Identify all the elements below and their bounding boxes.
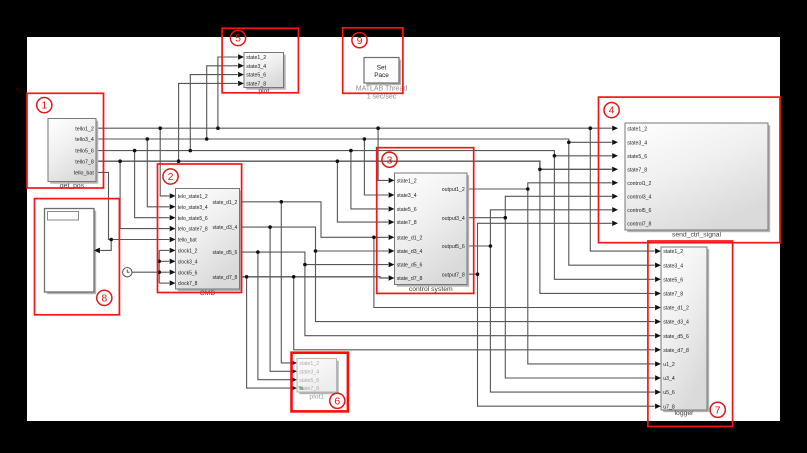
- wire clock to CMD clock3_4: [159, 259, 175, 264]
- wire state_d3_4 to plot1: [270, 227, 297, 374]
- wire output5_6 to send_ctrl: [467, 207, 618, 246]
- svg-text:state_d1_2: state_d1_2: [213, 200, 238, 206]
- wire tello7_8 to control in4: [337, 161, 394, 225]
- svg-text:tello_bat: tello_bat: [74, 171, 95, 177]
- wire tello3_4 main: [96, 139, 618, 145]
- wire clock feed: [132, 271, 159, 273]
- svg-text:state1_2: state1_2: [299, 361, 319, 367]
- junction state_d1_2/logger: [372, 236, 376, 240]
- junction state_d5_6/logger: [303, 263, 307, 267]
- svg-text:state3_4: state3_4: [299, 369, 319, 375]
- wire state_d1_2 to plot1: [281, 202, 297, 366]
- annotation box 5: [222, 28, 298, 93]
- wire state1_2 to logger: [590, 128, 661, 254]
- annotation circle 2: [163, 169, 178, 184]
- svg-text:state3_4: state3_4: [663, 263, 683, 269]
- wire clock to CMD clock1_2: [159, 248, 175, 253]
- svg-text:CMD: CMD: [200, 290, 216, 297]
- annotation box 3: [377, 148, 474, 294]
- junction tello7_8/ctrl: [336, 159, 340, 163]
- junction state_d1_2/plot1: [280, 200, 284, 204]
- junction tello5_6/ctrl: [349, 149, 353, 153]
- svg-text:MATLAB Thread: MATLAB Thread: [356, 86, 408, 93]
- wire u1_2 to logger: [528, 189, 661, 367]
- svg-text:state_d5_6: state_d5_6: [663, 334, 689, 340]
- annotation box 9: [343, 28, 403, 94]
- annotation circle 3: [382, 152, 397, 167]
- wire tello_bat branch to scope: [94, 240, 111, 254]
- junction tello3_4/ctrl: [363, 137, 367, 141]
- svg-text:state7_8: state7_8: [397, 220, 417, 226]
- junction clock/3_4: [157, 260, 161, 264]
- svg-text:8: 8: [101, 293, 107, 305]
- wire tello5_6 main: [96, 151, 618, 159]
- svg-text:state_d7_8: state_d7_8: [397, 276, 423, 282]
- wire clock to CMD clock5_6: [159, 270, 175, 275]
- wire tello3_4 to CMD in2: [147, 139, 175, 210]
- annotation circle 8: [97, 290, 112, 305]
- wire tello1_2 to control in1: [378, 128, 394, 183]
- svg-text:plot1: plot1: [309, 394, 324, 401]
- wire tello5_6 to control in3: [351, 151, 395, 212]
- annotation box 4: [599, 97, 781, 243]
- svg-text:u1_2: u1_2: [663, 362, 675, 368]
- svg-text:state_d7_8: state_d7_8: [663, 348, 689, 354]
- block control_system: [395, 173, 470, 293]
- wire tello5_6 to plot in3: [190, 72, 244, 151]
- svg-text:5: 5: [235, 33, 241, 45]
- svg-text:state7_8: state7_8: [627, 167, 647, 173]
- junction tello5_6/plot: [189, 149, 193, 153]
- junction state_d5_6/plot1: [256, 250, 260, 254]
- wire state_d3_4 to control: [240, 227, 395, 254]
- svg-text:state7_8: state7_8: [663, 292, 683, 298]
- svg-text:state1_2: state1_2: [397, 179, 417, 185]
- junction tello1_2/CMD: [158, 126, 162, 130]
- junction output5_6/logger: [489, 244, 493, 248]
- wire tello3_4 to control in2: [364, 139, 394, 198]
- svg-text:telo_state5_6: telo_state5_6: [178, 216, 208, 222]
- svg-text:state_d7_8: state_d7_8: [213, 275, 238, 281]
- svg-text:1: 1: [41, 100, 47, 112]
- wire state_d3_4 to logger: [316, 251, 661, 324]
- svg-text:state_d3_4: state_d3_4: [397, 249, 423, 255]
- block Set_Pace: [356, 58, 408, 101]
- wire state_d5_6 to control: [240, 252, 395, 267]
- svg-text:tello3_4: tello3_4: [75, 137, 94, 143]
- wire state_d1_2 to control: [240, 202, 395, 240]
- svg-text:telo_state1_2: telo_state1_2: [178, 194, 208, 200]
- junction tello5_6/logger: [553, 154, 557, 158]
- wire u3_4 to logger: [505, 218, 661, 381]
- junction tello5_6/CMD: [133, 149, 137, 153]
- annotation box 2: [158, 164, 242, 293]
- wire state_d5_6 to plot1: [258, 252, 297, 382]
- wire state_d5_6 to logger: [305, 265, 661, 339]
- wire state_d7_8 to logger: [294, 277, 661, 353]
- svg-text:tello1_2: tello1_2: [75, 126, 94, 132]
- junction tello1_2/plot: [216, 126, 220, 130]
- svg-text:u7_8: u7_8: [663, 404, 675, 410]
- junction tello7_8/plot: [177, 159, 181, 163]
- svg-text:1 sec/sec: 1 sec/sec: [367, 94, 397, 101]
- svg-text:telo_state3_4: telo_state3_4: [178, 205, 208, 211]
- wire tello3_4 to plot in2: [207, 63, 244, 139]
- svg-text:3: 3: [387, 154, 393, 166]
- svg-text:output1_2: output1_2: [442, 187, 465, 193]
- wire state_d7_8 to plot1: [247, 277, 297, 391]
- junction state_d7_8/logger: [292, 275, 296, 279]
- junction tello3_4/CMD: [146, 137, 150, 141]
- wire u5_6 to logger: [490, 246, 661, 395]
- svg-text:control5_6: control5_6: [627, 208, 651, 214]
- wire tello1_2 main: [96, 126, 618, 131]
- clock source: [123, 268, 132, 277]
- junction state_d3_4/logger: [314, 249, 318, 253]
- junction output1_2/logger: [526, 187, 530, 191]
- wire tello5_6 to CMD in3: [135, 151, 176, 221]
- svg-text:output5_6: output5_6: [442, 244, 465, 250]
- annotation circle 6: [330, 393, 345, 408]
- wire state3_4 to logger: [569, 142, 661, 268]
- junction tello3_4/plot: [205, 137, 209, 141]
- svg-text:state5_6: state5_6: [299, 378, 319, 384]
- junction tello3_4/logger: [567, 141, 571, 145]
- wire tello7_8 main: [96, 161, 618, 172]
- wire output7_8 to send_ctrl: [467, 221, 618, 275]
- block plot: [244, 53, 286, 96]
- block get_pos: [48, 119, 98, 190]
- svg-text:state3_4: state3_4: [397, 193, 417, 199]
- wire u7_8 to logger: [478, 274, 661, 409]
- svg-text:6: 6: [334, 395, 340, 407]
- block scope_subsystem: [45, 209, 97, 295]
- wire output3_4 to send_ctrl: [467, 194, 618, 218]
- svg-text:tello5_6: tello5_6: [75, 149, 94, 155]
- svg-text:clock1_2: clock1_2: [178, 249, 198, 255]
- svg-text:clock5_6: clock5_6: [178, 270, 198, 276]
- junction output3_4/logger: [504, 216, 508, 220]
- svg-text:%: %: [299, 386, 304, 392]
- svg-text:tello7_8: tello7_8: [75, 159, 94, 165]
- wire clock to CMD clock7_8: [159, 280, 175, 285]
- svg-text:control system: control system: [409, 286, 453, 293]
- scope input arrow: [94, 248, 100, 253]
- svg-text:state_d1_2: state_d1_2: [663, 306, 689, 312]
- svg-text:clock7_8: clock7_8: [178, 281, 198, 287]
- svg-text:telo_state7_8: telo_state7_8: [178, 227, 208, 233]
- svg-text:state5_6: state5_6: [246, 73, 266, 79]
- svg-text:state5_6: state5_6: [397, 207, 417, 213]
- junction tello7_8/CMD: [118, 159, 122, 163]
- junction tello1_2/ctrl: [376, 126, 380, 130]
- wire state_d7_8 to control: [240, 275, 395, 280]
- block send_ctrl_signal: [625, 123, 770, 239]
- junction tello7_8/logger: [538, 168, 542, 172]
- svg-text:output3_4: output3_4: [442, 216, 465, 222]
- svg-text:logger: logger: [675, 410, 695, 417]
- svg-text:state5_6: state5_6: [663, 277, 683, 283]
- svg-text:state3_4: state3_4: [627, 140, 647, 146]
- junction clock/5_6: [157, 270, 161, 274]
- wire state5_6 to logger: [554, 156, 661, 282]
- svg-text:state1_2: state1_2: [663, 249, 683, 255]
- svg-text:control1_2: control1_2: [627, 181, 651, 187]
- svg-text:state3_4: state3_4: [246, 64, 266, 70]
- annotation box 8: [35, 199, 120, 315]
- svg-text:state_d3_4: state_d3_4: [213, 225, 238, 231]
- wire state_d1_2 to logger: [374, 237, 661, 310]
- junction tello1_2/logger: [589, 126, 593, 130]
- block logger: [661, 247, 709, 417]
- svg-text:state7_8: state7_8: [246, 82, 266, 88]
- annotation circle 5: [230, 30, 245, 45]
- wire tello7_8 to plot in4: [179, 81, 244, 162]
- svg-text:state_d3_4: state_d3_4: [663, 320, 689, 326]
- junction state_d3_4/plot1: [268, 225, 272, 229]
- svg-text:state_d5_6: state_d5_6: [213, 250, 238, 256]
- annotation box 7: [648, 241, 733, 427]
- annotation circle 9: [352, 33, 367, 48]
- svg-text:control7_8: control7_8: [627, 221, 651, 227]
- block CMD: [176, 189, 242, 298]
- svg-text:send_ctrl_signal: send_ctrl_signal: [672, 232, 722, 239]
- svg-text:4: 4: [609, 105, 615, 117]
- svg-text:state1_2: state1_2: [627, 126, 647, 132]
- wire tello7_8 to CMD in4: [120, 161, 175, 231]
- block plot1: [297, 359, 339, 401]
- svg-text:state5_6: state5_6: [627, 154, 647, 160]
- svg-text:Pace: Pace: [374, 72, 389, 79]
- wire output1_2 to send_ctrl: [467, 180, 618, 189]
- wire tello1_2 to plot in1: [218, 54, 244, 128]
- svg-text:2: 2: [168, 171, 174, 183]
- svg-text:clock3_4: clock3_4: [178, 259, 198, 265]
- junction state_d7_8/plot1: [245, 275, 249, 279]
- svg-text:output7_8: output7_8: [442, 272, 465, 278]
- annotation circle 4: [604, 103, 619, 118]
- svg-text:plot: plot: [258, 88, 269, 95]
- junction tello_bat/scope: [109, 238, 113, 242]
- svg-text:control3_4: control3_4: [627, 194, 651, 200]
- junction output7_8/logger: [476, 272, 480, 276]
- wire state7_8 to logger: [540, 169, 661, 296]
- wire clock bus vertical: [158, 250, 160, 283]
- annotation circle 1: [37, 98, 52, 113]
- svg-text:u5_6: u5_6: [663, 390, 675, 396]
- svg-text:state1_2: state1_2: [246, 55, 266, 61]
- svg-text:9: 9: [357, 35, 363, 47]
- svg-text:tello_bat: tello_bat: [178, 238, 198, 244]
- wire tello_bat to CMD: [96, 172, 176, 242]
- annotation box 1: [27, 93, 104, 188]
- svg-text:7: 7: [715, 404, 721, 416]
- annotation circle 7: [710, 402, 725, 417]
- svg-text:state_d1_2: state_d1_2: [397, 235, 423, 241]
- svg-text:state_d5_6: state_d5_6: [397, 263, 423, 269]
- svg-text:Set: Set: [377, 65, 387, 72]
- annotation box 6: [292, 353, 348, 412]
- white canvas: [27, 37, 780, 421]
- wire tello1_2 to CMD in1: [160, 128, 175, 198]
- svg-text:u3_4: u3_4: [663, 376, 675, 382]
